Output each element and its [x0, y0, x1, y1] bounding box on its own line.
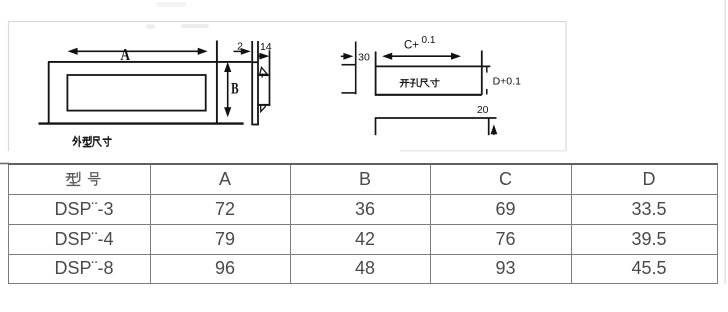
- D dimension ticks: [486, 67, 488, 95]
- dimension B arrow: [224, 62, 231, 117]
- caption 外型尺寸: [73, 136, 111, 146]
- cutout rect: [375, 51, 491, 95]
- svg-text:0.1: 0.1: [422, 35, 436, 46]
- spec table: [8, 163, 718, 284]
- dimension C arrow: [382, 53, 461, 60]
- outer rect front panel: [48, 62, 50, 124]
- faint watermark smudges top: [146, 2, 209, 29]
- caption 开孔尺寸: [400, 79, 439, 88]
- dimension A arrow: [68, 48, 208, 55]
- faint right edge line: [725, 0, 726, 284]
- bottom base line (thick): [39, 122, 244, 124]
- svg-text:C+: C+: [404, 40, 419, 52]
- side view bezel bar: [251, 41, 259, 125]
- 30 bracket: [342, 42, 356, 95]
- top mounting clip: [260, 67, 268, 77]
- inner rect display window: [67, 75, 205, 111]
- side view body: [258, 50, 271, 105]
- panel frame (light): [9, 22, 567, 152]
- bottom mounting clip: [261, 105, 266, 112]
- svg-text:B: B: [231, 80, 239, 97]
- svg-text:A: A: [121, 45, 131, 64]
- svg-text:30: 30: [358, 52, 370, 64]
- header 型号 (drawn glyphs): [66, 172, 100, 185]
- svg-text:D+0.1: D+0.1: [493, 75, 521, 87]
- table top border extension to left edge: [0, 163, 9, 165]
- svg-text:20: 20: [477, 104, 489, 116]
- bottom bracket with 20 arrow: [375, 118, 497, 135]
